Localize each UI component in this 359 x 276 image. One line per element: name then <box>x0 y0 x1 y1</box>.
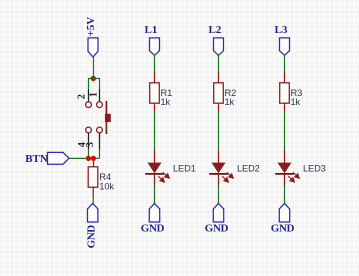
svg-text:+5V: +5V <box>85 17 97 37</box>
svg-text:LED2: LED2 <box>237 163 260 173</box>
button S1 contact circle pin 2 <box>86 102 92 108</box>
button S1 contact circle pin 1 <box>97 102 103 108</box>
wire L2 to R2 <box>218 55 220 72</box>
svg-text:3: 3 <box>85 142 96 147</box>
resistor R1 top pin <box>154 71 156 83</box>
svg-text:L2: L2 <box>209 24 222 36</box>
ground symbol column 1 <box>149 203 159 222</box>
wire horizontal BTN net <box>69 157 100 159</box>
LED1 cathode pin <box>154 175 156 186</box>
button S1 pin 1 line <box>99 89 101 101</box>
resistor R4 bottom pin <box>92 187 94 197</box>
supply flag L1 <box>150 38 160 55</box>
supply +5V symbol <box>88 38 98 57</box>
wire LED2 to GND <box>218 186 220 204</box>
resistor R2 body <box>214 83 224 103</box>
svg-text:GND: GND <box>205 223 229 235</box>
LED3 cathode bar <box>275 173 294 175</box>
LED3 triangle <box>278 163 292 174</box>
LED3 cathode pin <box>284 175 286 186</box>
resistor R4 body <box>88 167 98 187</box>
svg-text:LED3: LED3 <box>303 163 326 173</box>
wire pin3 down to net BTN <box>99 149 101 158</box>
svg-text:GND: GND <box>141 223 165 235</box>
svg-text:L1: L1 <box>145 24 158 36</box>
ground symbol column 2 <box>213 203 223 222</box>
button S1 pin 2 line <box>88 89 90 101</box>
LED1 arrow 2 <box>158 176 164 182</box>
node junction top <box>91 76 96 81</box>
resistor R1 bottom pin <box>154 103 156 111</box>
svg-text:1k: 1k <box>291 97 301 107</box>
ground symbol column 3 <box>279 203 289 222</box>
supply flag L2 <box>214 38 224 55</box>
wire R3 to LED3 <box>284 111 286 149</box>
resistor R3 bottom pin <box>284 103 286 111</box>
node junction BTN left <box>86 156 91 161</box>
wire pin4 down to net BTN <box>88 149 90 158</box>
button S1 contact circle pin 3 <box>97 127 103 133</box>
svg-text:GND: GND <box>86 225 98 249</box>
svg-text:1k: 1k <box>225 97 235 107</box>
LED1 cathode bar <box>145 173 164 175</box>
svg-text:1: 1 <box>88 92 99 97</box>
wire bridge to button pins <box>89 79 100 90</box>
resistor R1 body <box>150 83 160 103</box>
button S1 actuator bar <box>105 101 107 134</box>
svg-text:L3: L3 <box>275 24 288 36</box>
LED2 anode pin <box>218 150 220 165</box>
resistor R2 bottom pin <box>218 103 220 111</box>
button S1 pin 3 line <box>99 133 101 150</box>
wire R2 to LED2 <box>218 111 220 149</box>
wire R1 to LED1 <box>154 111 156 149</box>
resistor R4 top pin <box>93 158 95 167</box>
svg-text:GND: GND <box>271 223 295 235</box>
LED2 cathode pin <box>218 175 220 186</box>
ground symbol under R4 <box>87 203 97 222</box>
svg-text:2: 2 <box>77 94 88 99</box>
wire L3 to R3 <box>284 55 286 72</box>
LED1 arrow 1 <box>163 172 169 178</box>
node junction BTN right <box>91 156 96 161</box>
LED2 triangle <box>212 163 226 174</box>
wire LED3 to GND <box>284 186 286 204</box>
wire +5V to junction <box>93 57 95 78</box>
button S1 actuator bump <box>105 114 111 122</box>
resistor R3 body <box>280 83 290 103</box>
resistor R3 top pin <box>284 71 286 83</box>
LED1 triangle <box>148 163 162 174</box>
LED2 cathode bar <box>209 173 228 175</box>
svg-text:1k: 1k <box>161 97 171 107</box>
LED2 arrow 1 <box>227 172 233 178</box>
LED3 anode pin <box>284 150 286 165</box>
LED3 arrow 2 <box>288 176 294 182</box>
svg-text:10k: 10k <box>99 181 114 191</box>
wire LED1 to GND <box>154 186 156 204</box>
wire R4 to GND <box>92 198 94 205</box>
wire L1 to R1 <box>154 55 156 72</box>
LED3 arrow 1 <box>293 172 299 178</box>
supply flag L3 <box>280 38 290 55</box>
button S1 pin 4 line <box>88 133 90 150</box>
svg-text:BTN: BTN <box>25 153 48 165</box>
LED2 arrow 2 <box>222 176 228 182</box>
svg-text:LED1: LED1 <box>173 163 196 173</box>
label BTN flag <box>48 152 70 164</box>
LED1 anode pin <box>154 150 156 165</box>
button S1 contact circle pin 4 <box>86 127 92 133</box>
resistor R2 top pin <box>218 71 220 83</box>
